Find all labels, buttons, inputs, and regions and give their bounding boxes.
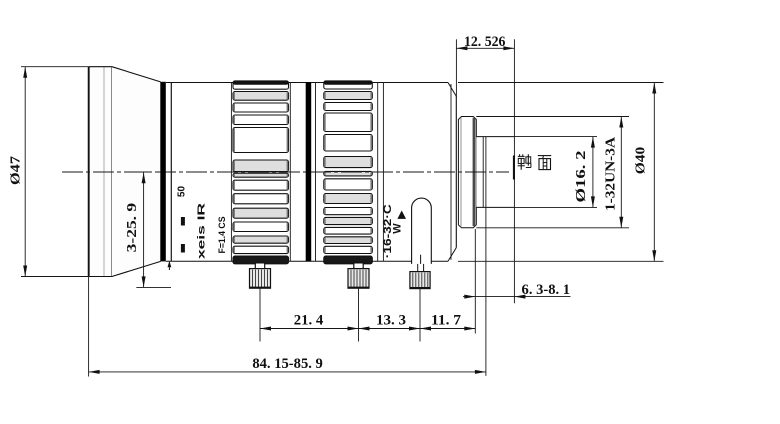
svg-text:13. 3: 13. 3 [376,313,406,329]
svg-text:12. 526: 12. 526 [464,34,506,50]
svg-text:xeis IR: xeis IR [197,202,208,259]
main barrel body [161,83,457,262]
black trim ring 2 [306,82,312,261]
dimension 6.3-8.1 [463,207,571,376]
focus ring left edge [230,83,232,262]
dimension 12.526 [456,34,514,304]
wide marker W [392,223,404,234]
svg-text:50: 50 [177,186,188,198]
svg-text:21. 4: 21. 4 [294,313,324,329]
focus ring right edge [289,83,291,262]
focal label 50 [177,186,188,198]
dimension 84.15-85.9 [89,277,486,377]
dimension &#216;40 [458,83,664,262]
svg-text:3-25. 9: 3-25. 9 [124,203,139,253]
brand label xeis IR [197,202,208,259]
svg-text:Ø40: Ø40 [634,147,649,175]
iris lever slot [412,198,432,264]
small arrow marker at iris ring [168,261,172,270]
dimension chain 21.4 13.3 11.7 [260,288,475,341]
optical centerline [62,171,509,173]
C-mount thread 1-32UN-3A barrel [458,117,476,228]
focus lock thumbscrew [250,263,271,288]
svg-text:F=1.4 CS: F=1.4 CS [217,217,227,254]
zoom ring knurled ribs [324,81,373,264]
svg-text:Ø16. 2: Ø16. 2 [574,151,589,203]
sensor plane tick [513,156,515,180]
svg-text:1-32UN-3A: 1-32UN-3A [604,136,619,211]
zoom scale label 16-32 C [382,204,394,258]
svg-text:11. 7: 11. 7 [431,313,461,329]
dimension 3-25.9 [124,172,171,287]
lens hood front cylinder [89,67,112,277]
svg-text:W: W [392,223,404,234]
zoom ring left edge [315,83,317,262]
zoom ring right edges [378,83,384,262]
wide marker triangle [397,211,406,219]
black trim ring 1 [160,82,166,262]
index tick 1 [181,217,185,226]
svg-text:84. 15-85. 9: 84. 15-85. 9 [252,356,323,372]
sensor plane label (target surface) [518,154,552,170]
svg-text:6. 3-8. 1: 6. 3-8. 1 [522,282,571,298]
rear lens barrel [476,137,514,208]
dimension &#216;47 [9,67,89,277]
conical hood taper [112,67,161,277]
screw stem in slot [420,255,422,264]
aperture ring edge lines [170,83,172,262]
index tick 2 [181,244,185,253]
dimension &#216;16.2 [514,137,597,208]
dimension 1-32UN-3A [476,117,629,228]
rear flange chamfers [448,83,456,262]
iris lock thumbscrew [410,264,430,289]
zoom lock thumbscrew [348,263,369,288]
label F=1.4 CS [217,217,227,254]
svg-text:Ø47: Ø47 [9,156,24,185]
focus ring knurled ribs [233,81,289,264]
